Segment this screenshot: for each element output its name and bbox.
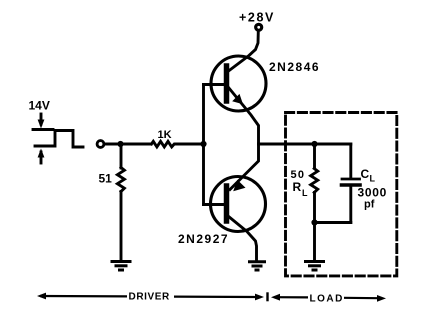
svg-text:14V: 14V bbox=[29, 99, 50, 113]
svg-text:L: L bbox=[370, 174, 376, 184]
svg-text:51: 51 bbox=[99, 172, 113, 186]
svg-text:1K: 1K bbox=[158, 129, 172, 141]
svg-text:2N2846: 2N2846 bbox=[269, 60, 320, 74]
svg-text:C: C bbox=[361, 167, 370, 181]
svg-text:2N2927: 2N2927 bbox=[178, 232, 229, 246]
svg-text:pf: pf bbox=[364, 199, 375, 211]
svg-text:LOAD: LOAD bbox=[310, 294, 344, 305]
svg-text:R: R bbox=[293, 180, 302, 194]
svg-text:+28V: +28V bbox=[239, 11, 275, 25]
svg-text:3000: 3000 bbox=[358, 186, 388, 200]
svg-text:DRIVER: DRIVER bbox=[129, 292, 171, 303]
svg-text:L: L bbox=[302, 188, 308, 198]
